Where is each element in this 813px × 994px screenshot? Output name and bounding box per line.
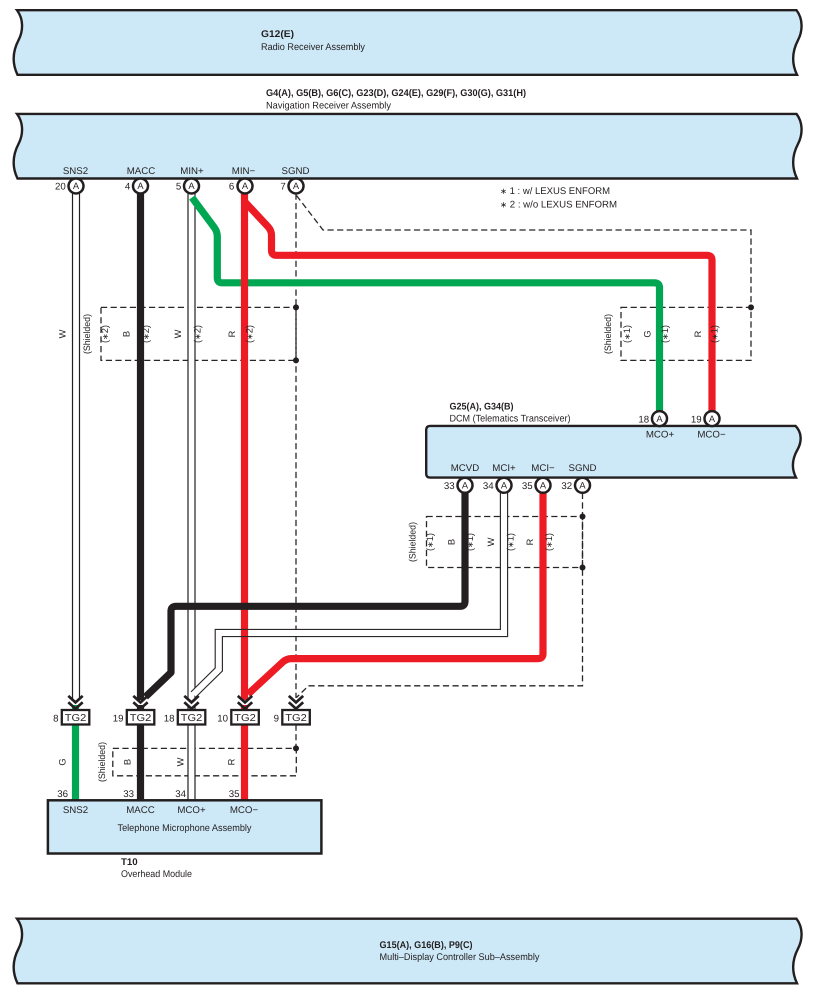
svg-text:(Shielded): (Shielded) [603,314,613,354]
svg-text:(Shielded): (Shielded) [408,522,418,562]
svg-text:A: A [242,181,249,191]
svg-text:MCO−: MCO− [697,430,726,441]
svg-text:(∗2): (∗2) [141,325,151,343]
shield box left (*2) [101,307,296,360]
svg-text:MACC: MACC [127,166,156,177]
wire DCM SGND to TG2 9 [297,493,583,698]
svg-text:W: W [486,537,496,546]
svg-text:MCO−: MCO− [230,805,259,816]
wire MACC B black vertical [137,194,144,701]
svg-text:(∗2): (∗2) [193,325,203,343]
svg-text:(Shielded): (Shielded) [82,314,92,354]
connector TG2 pin 18 [164,696,206,725]
svg-text:A: A [462,481,469,491]
connector TG2 pin 9 [274,696,310,725]
svg-text:R: R [525,538,535,545]
wire DCM MCVD black to TG2 19 [146,493,466,697]
wire TG2 9 to bottom shield [295,725,297,749]
svg-text:20: 20 [55,182,66,193]
DCM header G25(A), G34(B) [450,401,571,424]
svg-text:A: A [188,181,195,191]
wire DCM MCI- red to TG2 10 [248,493,543,694]
svg-text:Radio Receiver Assembly: Radio Receiver Assembly [261,42,365,53]
svg-text:MIN−: MIN− [232,166,256,177]
svg-text:A: A [709,414,716,424]
svg-text:G: G [643,330,653,337]
nav pin 4 MACC [125,179,148,194]
svg-text:MACC: MACC [126,805,155,816]
nav pin 6 MIN- [229,179,253,194]
rotated wire labels mid box [408,522,555,562]
DCM pin 35 MCI- [522,478,551,493]
svg-text:Multi–Display Controller Sub–A: Multi–Display Controller Sub–Assembly [380,952,540,963]
DCM pin 19 MCO- [691,411,720,426]
svg-text:TG2: TG2 [285,713,307,724]
rotated wire labels left run [58,314,255,354]
svg-text:SNS2: SNS2 [63,166,88,177]
svg-text:TG2: TG2 [130,713,152,724]
svg-text:MCO+: MCO+ [177,805,206,816]
svg-text:(∗1): (∗1) [544,533,554,551]
radio receiver assembly band G12(E) [14,10,802,75]
junction dot right shield top [748,304,754,310]
svg-text:Telephone Microphone Assembly: Telephone Microphone Assembly [118,823,252,834]
wire MCO+ below TG2 18 (white) [187,705,195,800]
svg-text:(∗2): (∗2) [100,325,110,343]
svg-text:MCI−: MCI− [531,463,555,474]
nav pin 5 MIN+ [176,179,199,194]
svg-text:B: B [447,539,457,545]
svg-text:19: 19 [691,414,702,425]
svg-text:A: A [656,414,663,424]
rotated wire labels right box [603,314,720,354]
svg-text:G4(A), G5(B), G6(C), G23(D), G: G4(A), G5(B), G6(C), G23(D), G24(E), G29… [266,88,526,99]
svg-text:SNS2: SNS2 [63,805,88,816]
svg-text:G15(A), G16(B), P9(C): G15(A), G16(B), P9(C) [380,940,473,951]
connector TG2 pin 8 [53,696,89,725]
svg-text:G25(A), G34(B): G25(A), G34(B) [450,401,514,412]
svg-text:36: 36 [57,789,68,800]
rotated wire labels bottom box [58,742,237,782]
svg-text:(Shielded): (Shielded) [97,742,107,782]
svg-text:G12(E): G12(E) [261,29,294,40]
svg-text:8: 8 [53,714,58,725]
wire MIN+ G green branch to DCM MCO+ [192,198,660,412]
svg-text:W: W [173,329,183,338]
shield box bottom [113,748,296,775]
svg-text:18: 18 [164,714,175,725]
junction dot bottom shield top [293,745,299,751]
svg-text:TG2: TG2 [234,713,256,724]
svg-text:7: 7 [280,182,285,193]
svg-text:B: B [123,759,133,765]
svg-text:W: W [58,329,68,338]
svg-text:32: 32 [561,481,572,492]
svg-text:(∗1): (∗1) [425,533,435,551]
svg-text:A: A [293,181,300,191]
junction dot left shield bottom [293,357,299,363]
wire MACC B black below TG2 19 [137,705,144,800]
svg-text:34: 34 [175,789,186,800]
svg-text:TG2: TG2 [181,713,203,724]
wire SGND *2 vertical [295,194,297,699]
DCM pin 33 MCVD [444,478,473,493]
svg-text:18: 18 [638,414,649,425]
svg-text:∗ 2 : w/o LEXUS ENFORM: ∗ 2 : w/o LEXUS ENFORM [500,199,617,210]
svg-text:B: B [122,331,132,337]
svg-text:G: G [58,758,68,765]
svg-text:Overhead Module: Overhead Module [121,869,192,880]
svg-text:(∗2): (∗2) [245,325,255,343]
svg-text:9: 9 [274,714,279,725]
wire MIN- R red vertical [241,194,248,701]
svg-text:(∗1): (∗1) [660,325,670,343]
junction dot mid shield top [580,514,586,520]
DCM (Telematics Transceiver) band [426,426,800,478]
svg-text:A: A [579,481,586,491]
shield box mid (*1) [427,517,583,568]
svg-text:SGND: SGND [569,463,597,474]
DCM pin 32 SGND [561,478,590,493]
svg-text:A: A [540,481,547,491]
svg-text:(∗1): (∗1) [465,533,475,551]
wire MCO- red below TG2 10 [241,705,248,800]
nav pin 7 SGND [280,179,303,194]
wire DCM MCI+ white fill [194,493,505,695]
svg-text:DCM (Telematics Transceiver): DCM (Telematics Transceiver) [450,414,571,425]
svg-text:R: R [693,330,703,337]
navigation receiver assembly header [266,88,526,112]
svg-text:4: 4 [125,182,131,193]
svg-text:A: A [73,181,80,191]
wire SNS2 W (white) [72,194,80,701]
svg-text:35: 35 [229,789,240,800]
wire MIN+ W (white) [187,194,195,701]
DCM pin 34 MCI+ [483,478,512,493]
svg-text:6: 6 [229,182,234,193]
svg-text:∗ 1 : w/ LEXUS ENFORM: ∗ 1 : w/ LEXUS ENFORM [500,186,610,197]
svg-text:T10: T10 [121,857,138,868]
connector TG2 pin 19 [113,696,155,725]
svg-text:MIN+: MIN+ [180,166,204,177]
svg-text:R: R [227,330,237,337]
svg-text:35: 35 [522,481,533,492]
svg-text:5: 5 [176,182,181,193]
svg-text:10: 10 [217,714,228,725]
svg-text:A: A [501,481,508,491]
svg-text:A: A [137,181,144,191]
nav pin 20 SNS2 [55,179,83,194]
svg-text:W: W [176,757,186,766]
svg-text:MCVD: MCVD [451,463,480,474]
wire MIN- R red branch to DCM MCO- [245,202,713,412]
wire DCM MCI+ edge lines [191,493,508,697]
svg-text:(∗1): (∗1) [622,325,632,343]
svg-text:(∗1): (∗1) [710,325,720,343]
svg-text:34: 34 [483,481,494,492]
svg-text:TG2: TG2 [65,713,87,724]
svg-text:33: 33 [444,481,455,492]
svg-text:MCO+: MCO+ [646,430,675,441]
label T10 overhead module [121,857,192,880]
svg-text:SGND: SGND [282,166,310,177]
DCM pin 18 MCO+ [638,411,667,426]
connector TG2 pin 10 [217,696,259,725]
svg-text:R: R [227,758,237,765]
svg-text:19: 19 [113,714,124,725]
telephone microphone assembly box [48,800,322,853]
junction dot left shield top [293,304,299,310]
svg-text:33: 33 [123,789,134,800]
svg-text:Navigation Receiver Assembly: Navigation Receiver Assembly [266,101,391,112]
junction dot mid shield bottom [580,565,586,571]
dashed wires and shield boxes [101,194,751,776]
wire SNS2 G green below TG2 8 [72,705,79,800]
navigation receiver assembly band [14,114,802,179]
wire SGND *1 branch to right [297,196,752,308]
multi-display controller band G15(A), G16(B), P9(C) [14,919,802,984]
svg-text:(∗1): (∗1) [506,533,516,551]
shield box right (*1) [621,307,751,360]
svg-text:MCI+: MCI+ [492,463,516,474]
